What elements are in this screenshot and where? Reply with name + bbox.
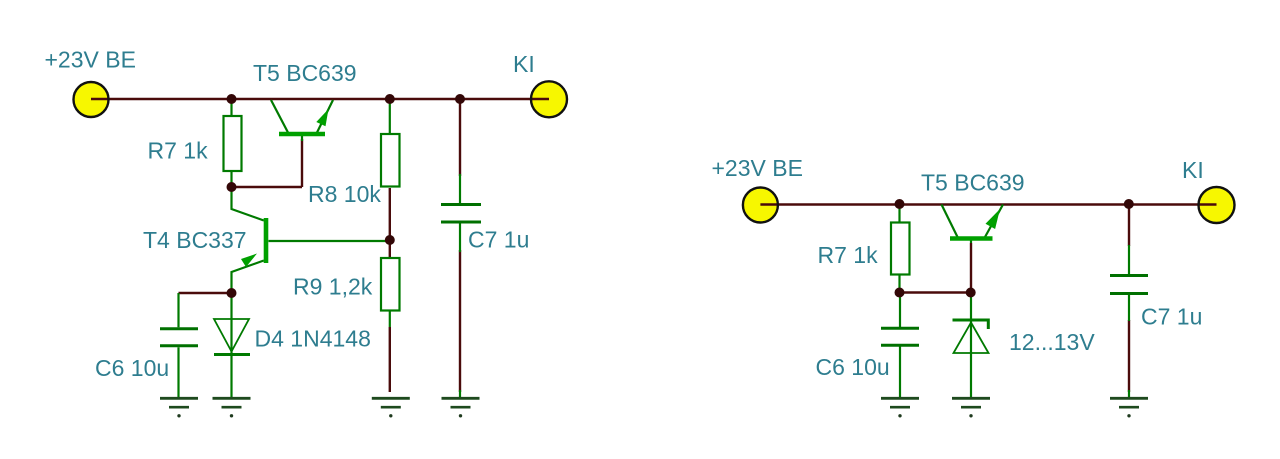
svg-text:+23V BE: +23V BE — [712, 155, 803, 181]
svg-text:T4 BC337: T4 BC337 — [143, 227, 247, 253]
svg-text:C7 1u: C7 1u — [468, 227, 529, 253]
svg-text:C7 1u: C7 1u — [1141, 304, 1202, 330]
svg-text:T5 BC639: T5 BC639 — [253, 60, 357, 86]
svg-text:R8 10k: R8 10k — [308, 181, 381, 207]
svg-text:KI: KI — [513, 51, 535, 77]
svg-text:12...13V: 12...13V — [1009, 329, 1095, 355]
svg-text:R7 1k: R7 1k — [818, 242, 879, 268]
svg-text:C6 10u: C6 10u — [816, 354, 890, 380]
svg-text:R9 1,2k: R9 1,2k — [293, 274, 373, 300]
svg-text:T5 BC639: T5 BC639 — [921, 170, 1025, 196]
svg-text:D4 1N4148: D4 1N4148 — [255, 326, 371, 352]
svg-text:C6 10u: C6 10u — [95, 355, 169, 381]
svg-text:KI: KI — [1182, 157, 1204, 183]
svg-text:+23V BE: +23V BE — [45, 47, 136, 73]
svg-text:R7 1k: R7 1k — [148, 138, 209, 164]
